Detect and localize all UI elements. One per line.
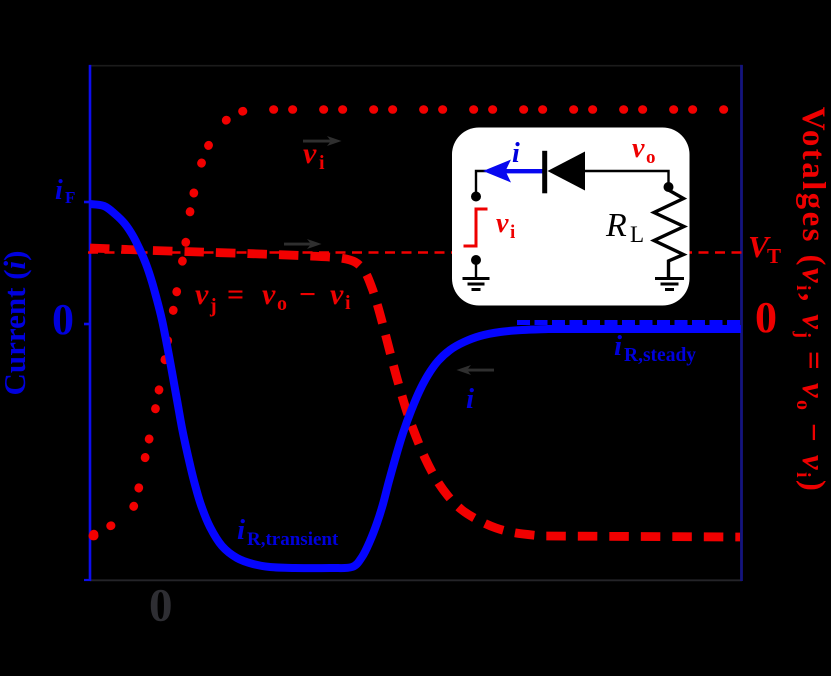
ground (left, under source) <box>463 279 490 290</box>
svg-text:i: i <box>510 222 515 243</box>
svg-text:j: j <box>209 295 217 317</box>
svg-text:−: − <box>299 278 316 311</box>
svg-text:F: F <box>65 188 75 207</box>
diode (cathode bar + triangle) <box>542 151 547 194</box>
tick iF on left axis <box>84 201 91 204</box>
tick 0 on left axis <box>84 323 91 326</box>
label VT <box>748 229 781 268</box>
bottom spine <box>90 579 742 581</box>
label iF <box>55 175 75 207</box>
vi first dot at axis <box>89 532 99 541</box>
gray arrow near vi label <box>303 136 342 146</box>
inset white box <box>452 128 690 306</box>
gray arrow near i label (left pointing) <box>457 365 495 375</box>
svg-text:R,steady: R,steady <box>624 345 696 366</box>
svg-text:v: v <box>330 278 344 311</box>
svg-text:0: 0 <box>755 293 777 342</box>
svg-text:v: v <box>303 137 317 170</box>
svg-text:v: v <box>496 208 509 239</box>
svg-text:o: o <box>277 293 287 315</box>
node: left bottom terminal <box>471 255 481 265</box>
vi dotted red curve <box>90 110 737 537</box>
label iR,transient <box>237 514 339 550</box>
svg-text:v: v <box>195 278 209 311</box>
resistor RL zigzag <box>654 187 684 277</box>
label iR,steady <box>614 330 696 366</box>
tick bottom-left on left axis <box>84 579 91 581</box>
current arrow i (blue) <box>505 169 543 173</box>
svg-text:i: i <box>614 330 622 362</box>
svg-text:i: i <box>55 175 63 206</box>
svg-text:i: i <box>512 138 520 169</box>
wire: left bottom node to ground <box>475 260 477 277</box>
left spine (blue axis) <box>89 65 92 581</box>
svg-text:Current (i): Current (i) <box>0 251 32 396</box>
svg-text:R: R <box>605 207 627 244</box>
svg-text:v: v <box>262 278 276 311</box>
svg-text:R,transient: R,transient <box>247 529 339 550</box>
svg-text:i: i <box>466 383 474 415</box>
wire: diode to RL top <box>585 171 669 187</box>
svg-text:Votalges (vi, vj = vo − vi): Votalges (vi, vj = vo − vi) <box>792 107 831 494</box>
svg-text:0: 0 <box>52 295 74 344</box>
svg-text:i: i <box>319 152 325 174</box>
blue current curve i <box>90 204 741 568</box>
label vi (source) <box>496 208 515 243</box>
vj heavy dashed red curve <box>90 248 740 537</box>
svg-text:=: = <box>227 278 244 311</box>
blue dashed iR,steady line <box>517 320 742 325</box>
top spine <box>90 65 742 67</box>
label vj = vo - vi <box>195 278 351 317</box>
svg-text:i: i <box>345 292 351 314</box>
node: left top terminal <box>471 192 481 202</box>
ground (right, under RL) <box>655 279 684 290</box>
svg-text:T: T <box>767 244 781 268</box>
right spine (navy axis) <box>740 65 743 581</box>
node: vo (top of RL) <box>664 182 674 192</box>
label vi (top arrow) <box>303 137 325 174</box>
VT thin dashed red line <box>88 251 742 254</box>
gray arrow near VT line <box>284 239 322 249</box>
svg-text:0: 0 <box>149 580 173 632</box>
label vo (node voltage) <box>632 133 656 168</box>
svg-text:v: v <box>632 133 645 164</box>
value label RL <box>605 207 644 247</box>
step voltage source vi symbol <box>464 209 488 246</box>
svg-text:i: i <box>237 514 245 546</box>
svg-text:L: L <box>630 222 644 247</box>
wire: left lead (node to arrow tip) <box>476 171 486 196</box>
svg-text:o: o <box>646 147 656 168</box>
